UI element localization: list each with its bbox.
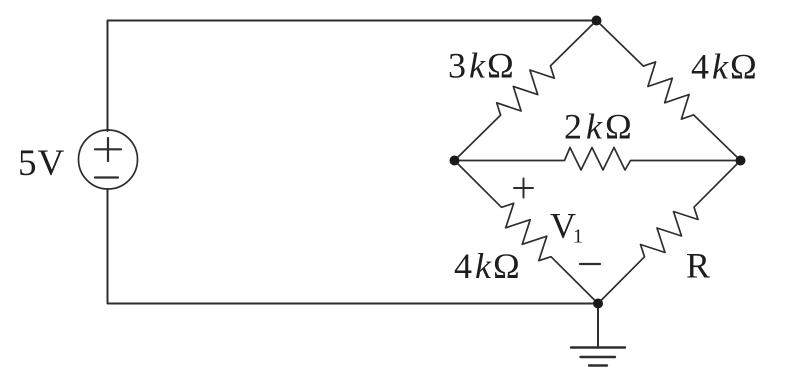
resistor 4k bottom left: [455, 161, 599, 304]
plus sign V1: [514, 187, 533, 189]
resistor R: [598, 161, 741, 304]
svg-text:2kΩ: 2kΩ: [564, 107, 632, 147]
svg-text:4kΩ: 4kΩ: [691, 47, 757, 87]
ground: [597, 304, 599, 348]
voltage source V1 5V: [79, 130, 138, 189]
wire top rail: [108, 21, 597, 132]
svg-text:4kΩ: 4kΩ: [454, 246, 520, 286]
node right mid: [736, 156, 746, 166]
node top: [592, 16, 602, 26]
node left mid: [450, 156, 460, 166]
svg-text:3kΩ: 3kΩ: [448, 46, 514, 86]
node bottom: [593, 299, 603, 309]
resistor 4k top right: [597, 21, 741, 161]
resistor 2k: [455, 148, 741, 171]
resistor 3k: [455, 21, 597, 161]
svg-text:5V: 5V: [18, 143, 65, 184]
svg-text:R: R: [686, 246, 710, 286]
wire bottom rail: [108, 189, 599, 304]
minus sign V1: [580, 263, 600, 265]
